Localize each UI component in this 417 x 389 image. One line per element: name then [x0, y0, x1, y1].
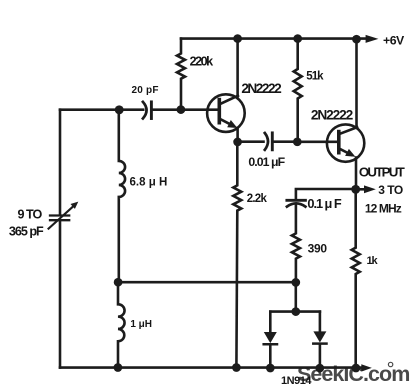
node: tank top [115, 105, 124, 114]
resistor R2 51k [294, 39, 302, 142]
transistor Q2 collector wire [355, 39, 358, 128]
capacitor C3 0.01uF (flat plate) [271, 133, 274, 150]
variable capacitor C2 top plate [50, 214, 69, 216]
node: diode bridge top [291, 307, 300, 316]
resistor R5 1k [352, 189, 360, 367]
node: rail/Q1 collector [233, 34, 242, 43]
wire: Q2 base wire [297, 141, 339, 144]
node: 390 bottom [291, 278, 300, 287]
inductor L1 6.8uH [119, 110, 125, 282]
wire: 390 node down to diode pair [294, 282, 297, 311]
diode D1 1N914 triangle [264, 332, 277, 343]
diode D2 cathode bar [313, 342, 326, 345]
node: bottom rail/D2 [315, 364, 324, 373]
wire: tuned-circuit top lead (left segment of base wire) [60, 108, 143, 111]
svg-text:OUTPUT: OUTPUT [359, 165, 405, 180]
svg-text:51k: 51k [306, 70, 324, 82]
svg-text:2N2222: 2N2222 [241, 81, 282, 96]
transistor Q2 emitter arrowhead [345, 149, 355, 157]
svg-text:2N2222: 2N2222 [311, 108, 354, 123]
transistor Q1 collector wire [236, 39, 239, 97]
capacitor C4 0.1uF (flat plate) [287, 199, 306, 202]
svg-text:2.2k: 2.2k [247, 193, 268, 205]
transistor Q1 base bar [218, 100, 222, 123]
wire: C3 to Q2 base node [274, 140, 298, 143]
wire: D2 cathode to bottom rail [319, 345, 322, 369]
svg-text:1k: 1k [366, 255, 378, 267]
svg-text:6.8 μ H: 6.8 μ H [130, 176, 168, 188]
node: tank tap [114, 278, 123, 287]
transistor Q1 2N2222 circle [207, 94, 245, 132]
node: Q1 emitter [233, 138, 242, 147]
node: bottom rail/D1 [266, 364, 275, 373]
node: bottom rail/1k [352, 364, 361, 373]
wire: left diode anode lead [269, 312, 272, 333]
resistor R3 2.2k [233, 142, 241, 368]
transistor Q1 collector stroke [221, 96, 238, 104]
transistor Q1 emitter wire [236, 128, 239, 142]
wire: left vertical (tank left side, lower) [59, 221, 62, 367]
svg-text:+6V: +6V [383, 34, 405, 48]
svg-text:9 TO: 9 TO [18, 208, 43, 222]
wire: left vertical (tank left side, upper) [59, 110, 62, 215]
wire: feedback tap (tank to 390/diodes node) [118, 281, 296, 284]
transistor Q2 emitter wire [355, 158, 358, 190]
node: bottom rail/tank [114, 363, 123, 372]
svg-text:220k: 220k [190, 55, 215, 69]
resistor R1 220k [177, 39, 185, 110]
inductor L2 1uH [118, 282, 125, 367]
wire: right diode anode lead [319, 312, 322, 332]
node: rail/Q2 collector [352, 35, 361, 44]
capacitor C1 20pF (curved plate) [143, 102, 147, 119]
svg-text:365 pF: 365 pF [9, 225, 44, 239]
svg-text:0.01 μF: 0.01 μF [248, 155, 285, 169]
svg-text:12 MHz: 12 MHz [365, 202, 402, 216]
transistor Q1 emitter arrowhead [227, 120, 237, 128]
transistor Q2 emitter stroke [340, 149, 351, 155]
node: rail/51k [293, 34, 302, 43]
svg-text:390: 390 [308, 241, 328, 255]
svg-text:3 TO: 3 TO [378, 183, 403, 197]
variable capacitor C2 bottom plate [50, 219, 69, 221]
svg-text:1N914: 1N914 [281, 375, 312, 387]
output arrow [356, 188, 365, 191]
+6V arrowhead [366, 35, 379, 43]
wire: output node to C4 top [296, 189, 356, 199]
transistor Q2 2N2222 circle [327, 124, 364, 161]
bottom output return arrowhead [361, 364, 372, 371]
transistor Q1 emitter stroke [221, 119, 233, 125]
diode D2 1N914 triangle [313, 331, 326, 342]
wire: diode pair top bridge [270, 310, 320, 313]
variable capacitor C2 arrow [49, 207, 73, 229]
transistor Q2 base bar [337, 132, 341, 153]
resistor R4 390 [292, 206, 300, 282]
svg-text:20 pF: 20 pF [132, 85, 159, 96]
svg-text:1 μH: 1 μH [130, 319, 152, 330]
svg-text:0.1 μ F: 0.1 μ F [307, 196, 341, 211]
node: Q2 base [293, 137, 302, 146]
wire: Q1 emitter node to C3 [238, 140, 264, 143]
capacitor C1 20pF (flat plate) [150, 102, 153, 119]
wire: D1 cathode to bottom rail [269, 345, 272, 368]
capacitor C3 0.01uF (curved plate) [265, 133, 268, 150]
wire: bottom rail [60, 366, 362, 369]
wire: 20pF to Q1 base [153, 108, 220, 111]
node: output [351, 185, 360, 194]
transistor Q2 collector stroke [340, 127, 357, 133]
+6V supply rail wire [181, 37, 366, 40]
watermark SeekIC.com [297, 362, 409, 386]
node: bottom rail/2.2k [232, 363, 241, 372]
diode D1 cathode bar [264, 343, 277, 346]
node: 220k/base wire [177, 105, 186, 114]
capacitor C4 0.1uF (curved plate) [287, 203, 306, 206]
